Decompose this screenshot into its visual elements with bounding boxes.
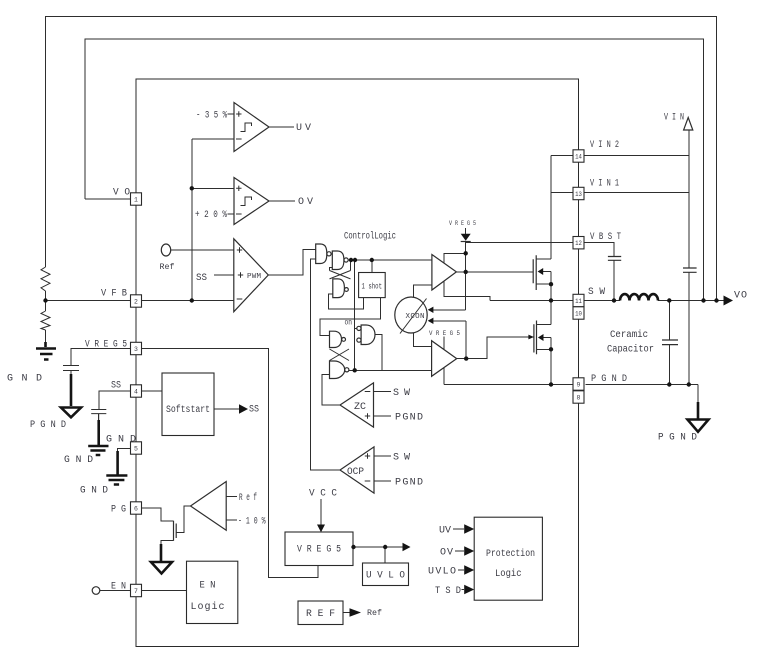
svg-text:4: 4 [134,388,138,395]
svg-text:Softstart: Softstart [166,404,210,416]
svg-text:OCP: OCP [347,467,364,478]
svg-text:G N D: G N D [80,486,108,497]
svg-text:G N D: G N D [64,455,93,466]
svg-text:P G N D: P G N D [591,374,627,385]
svg-text:7: 7 [134,588,138,595]
svg-text:V I N 2: V I N 2 [590,140,619,151]
svg-text:P G: P G [111,505,126,516]
svg-text:V R E G 5: V R E G 5 [297,545,341,556]
svg-text:U V L O: U V L O [366,571,405,582]
svg-text:- 1 0 %: - 1 0 % [238,517,266,528]
svg-text:- 3 5 %: - 3 5 % [196,111,227,122]
svg-text:1: 1 [134,196,138,203]
svg-text:E N: E N [111,582,126,593]
svg-text:PWM: PWM [247,273,261,281]
svg-text:R E F: R E F [306,609,335,620]
svg-text:Logic: Logic [495,568,522,580]
svg-text:Ref: Ref [367,608,382,618]
svg-text:Protection: Protection [486,548,535,560]
svg-text:UVLO: UVLO [428,567,456,578]
svg-text:1 shot: 1 shot [362,282,383,291]
svg-text:E N: E N [200,581,216,592]
svg-text:SS: SS [249,405,259,416]
svg-text:T S D: T S D [435,586,461,597]
svg-text:V R E G 5: V R E G 5 [85,340,127,351]
svg-text:PGND: PGND [395,478,423,489]
svg-text:UV: UV [439,526,451,537]
svg-text:5: 5 [134,445,138,452]
svg-text:10: 10 [575,310,582,317]
svg-text:V I N: V I N [664,113,684,124]
svg-text:G N D: G N D [106,435,136,446]
svg-text:on: on [345,319,353,328]
svg-text:12: 12 [575,240,582,247]
svg-text:OV: OV [440,548,453,559]
svg-text:V O: V O [113,188,130,199]
svg-text:Ceramic: Ceramic [610,329,648,341]
svg-text:Logic: Logic [191,601,225,613]
svg-text:PGND: PGND [395,413,423,424]
svg-text:8: 8 [577,394,581,401]
svg-text:P G N D: P G N D [30,420,66,431]
svg-text:Ref: Ref [160,262,175,272]
svg-text:S W: S W [588,287,605,298]
svg-text:P G N D: P G N D [658,433,697,444]
svg-text:V C C: V C C [309,489,337,500]
svg-text:6: 6 [134,505,138,512]
svg-text:ZC: ZC [354,402,366,413]
svg-text:Capacitor: Capacitor [607,344,654,356]
svg-text:V R E G 5: V R E G 5 [449,220,476,227]
svg-text:ControlLogic: ControlLogic [344,231,396,243]
svg-text:V F B: V F B [101,289,127,300]
svg-text:G N D: G N D [7,374,42,385]
svg-text:VO: VO [734,291,747,302]
svg-text:+ 2 0 %: + 2 0 % [195,210,227,221]
svg-text:11: 11 [575,298,582,305]
svg-text:2: 2 [134,298,138,305]
svg-text:13: 13 [575,191,582,198]
svg-text:SS: SS [111,381,121,392]
svg-text:R e f: R e f [239,492,257,504]
svg-text:V I N 1: V I N 1 [590,179,619,190]
svg-text:SS: SS [196,273,207,284]
svg-text:V R E G 5: V R E G 5 [429,330,460,337]
svg-text:9: 9 [577,381,581,388]
svg-text:14: 14 [575,153,582,160]
svg-text:V B S T: V B S T [590,232,621,243]
svg-text:XCON: XCON [406,313,425,321]
svg-text:3: 3 [134,346,138,353]
